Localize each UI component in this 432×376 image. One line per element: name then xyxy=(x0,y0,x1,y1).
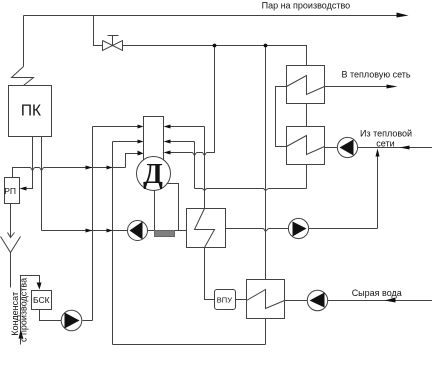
wire right feed top from HX3 xyxy=(170,126,205,128)
arrowhead up into network return line xyxy=(376,149,380,157)
arrowhead РП inlet pointing left xyxy=(20,187,27,191)
wire БСК outlet to pump P5 xyxy=(40,310,62,321)
wire HX1 left pipe down to HX2 xyxy=(276,87,287,147)
wire РП top stub and overflow line across risers xyxy=(13,168,126,178)
arrowhead into deaerator right middle xyxy=(164,140,171,144)
svg-text:Пар на производство: Пар на производство xyxy=(262,1,351,11)
arrowhead into deaerator right bottom xyxy=(164,151,171,155)
dip over x=194.4 xyxy=(193,153,197,156)
wire HX1-HX2 connecting pipe xyxy=(306,104,308,127)
open arrow down into funnel xyxy=(8,233,15,238)
wire left feed middle into deaerator xyxy=(113,141,139,143)
line break symbol on riser xyxy=(12,67,34,86)
pump P3 feed pump xyxy=(128,221,148,241)
arrowhead raw water pointing left xyxy=(385,298,396,303)
heat exchanger HX2 (lower network heater) xyxy=(287,127,325,165)
wire HX2 bottom pipe xyxy=(306,165,308,189)
wire left feed top into deaerator xyxy=(93,126,139,128)
wire ПК drain right vertical xyxy=(41,137,43,231)
dip over x=204.3 xyxy=(203,153,207,156)
pump P2 xyxy=(288,218,308,238)
wire condensate riser x=92 xyxy=(92,127,94,321)
arrowhead into deaerator left bottom xyxy=(138,151,144,156)
arrowhead steam main right xyxy=(397,13,409,18)
dip over x=265.8 xyxy=(264,189,269,191)
arrowhead from heating network pointing left xyxy=(400,146,410,150)
deaerator tank legs xyxy=(155,184,179,231)
wire feed line under tank bar to HX3 xyxy=(148,230,187,232)
wire right feed bottom from steam main xyxy=(170,46,215,153)
valve drop from steam main xyxy=(94,16,103,46)
svg-text:В тепловую сеть: В тепловую сеть xyxy=(342,69,411,79)
heat exchanger HX4 (raw water heater) xyxy=(247,280,285,319)
wire HX2 drain run y=188.1 xyxy=(195,188,307,190)
valve stem and handle xyxy=(108,36,119,46)
wire x=194.4 down xyxy=(194,142,196,189)
svg-text:БСК: БСК xyxy=(33,295,50,305)
wire condensate from production inlet xyxy=(21,276,40,345)
arrowhead up on condensate inlet xyxy=(19,331,24,339)
pump P1 network xyxy=(337,137,357,157)
wire bottom condensate run xyxy=(113,344,266,346)
heat exchanger HX3 (drain cooler) xyxy=(187,209,226,248)
wire HX3 right to pump P2 xyxy=(226,228,289,230)
dip over x=41.5 xyxy=(40,168,44,171)
wire deaerator outlet / feed line y=230.7 xyxy=(42,230,128,232)
ВПУ water treatment unit xyxy=(215,290,236,310)
wire from heating network line xyxy=(358,147,432,149)
wire steam main horizontal top xyxy=(24,15,398,17)
dip over x=32.4 xyxy=(31,168,35,171)
wire steam riser to HX4 x=265.8 xyxy=(265,46,267,280)
wire return riser x=112.5 xyxy=(112,142,114,345)
node junction at x=214.5 xyxy=(213,44,217,48)
flow arrow at x=112.5 crossing xyxy=(107,229,113,233)
wire РП drain down xyxy=(10,204,12,237)
wire jog up to bottom-left deaerator arrow xyxy=(126,154,139,168)
node junction at x=265.8 xyxy=(264,44,268,48)
deaerator tank grey bar xyxy=(155,231,175,237)
dip over x=265.8 xyxy=(264,229,269,232)
deaerator circle Д xyxy=(137,157,171,191)
wire pump P2 to riser xyxy=(309,228,378,230)
wire HX2 right pipe to pump xyxy=(325,147,338,149)
boiler ПК xyxy=(9,86,52,137)
arrowhead to heating network xyxy=(387,85,398,89)
wire HX3 bottom to ВПУ xyxy=(205,248,215,300)
svg-text:РП: РП xyxy=(4,186,16,196)
dip over x=204.3 xyxy=(203,189,207,191)
svg-text:Из тепловой: Из тепловой xyxy=(360,128,412,138)
wire raw water inlet xyxy=(328,300,432,302)
pump P4 raw water xyxy=(307,290,327,310)
heat exchanger HX1 (upper network heater) xyxy=(287,66,325,104)
wire boiler riser xyxy=(23,16,25,67)
arrowhead into deaerator right top xyxy=(164,125,171,129)
wire right feed middle from HX2 drain xyxy=(170,141,195,143)
arrowhead into deaerator left middle xyxy=(138,140,144,144)
pump P5 condensate xyxy=(61,310,82,331)
flow arrow at x=112.5 crossing xyxy=(107,166,113,170)
arrowhead into deaerator left top xyxy=(138,125,144,129)
wire to heating network xyxy=(325,86,388,88)
БСК tank xyxy=(32,291,52,310)
wire steam main to heaters xyxy=(123,46,307,66)
svg-text:Сырая вода: Сырая вода xyxy=(352,288,402,298)
wire ВПУ to HX4 xyxy=(236,299,247,301)
svg-text:с производства: с производства xyxy=(18,278,28,342)
svg-text:Д: Д xyxy=(143,158,163,190)
wire riser from HX3 outlet pump xyxy=(377,153,379,229)
funnel drain xyxy=(1,237,21,288)
wire ПК blowdown left vertical xyxy=(27,137,33,189)
wire pump P5 outlet up riser xyxy=(83,320,93,322)
flow arrow at x=92 crossing xyxy=(86,166,93,170)
svg-text:ВПУ: ВПУ xyxy=(217,296,232,305)
valve body xyxy=(103,41,123,51)
wire HX3 water riser x=204.3 xyxy=(204,127,206,209)
deaerator column xyxy=(144,117,164,165)
РП vessel xyxy=(5,178,20,204)
arrowhead down into БСК xyxy=(37,283,42,290)
flow arrow at x=92 crossing xyxy=(86,229,93,233)
wire HX4 drain down to bottom run xyxy=(265,319,267,345)
wire HX4 right to pump P4 xyxy=(285,300,308,302)
svg-text:ПК: ПК xyxy=(21,102,41,119)
svg-text:сети: сети xyxy=(376,139,394,149)
